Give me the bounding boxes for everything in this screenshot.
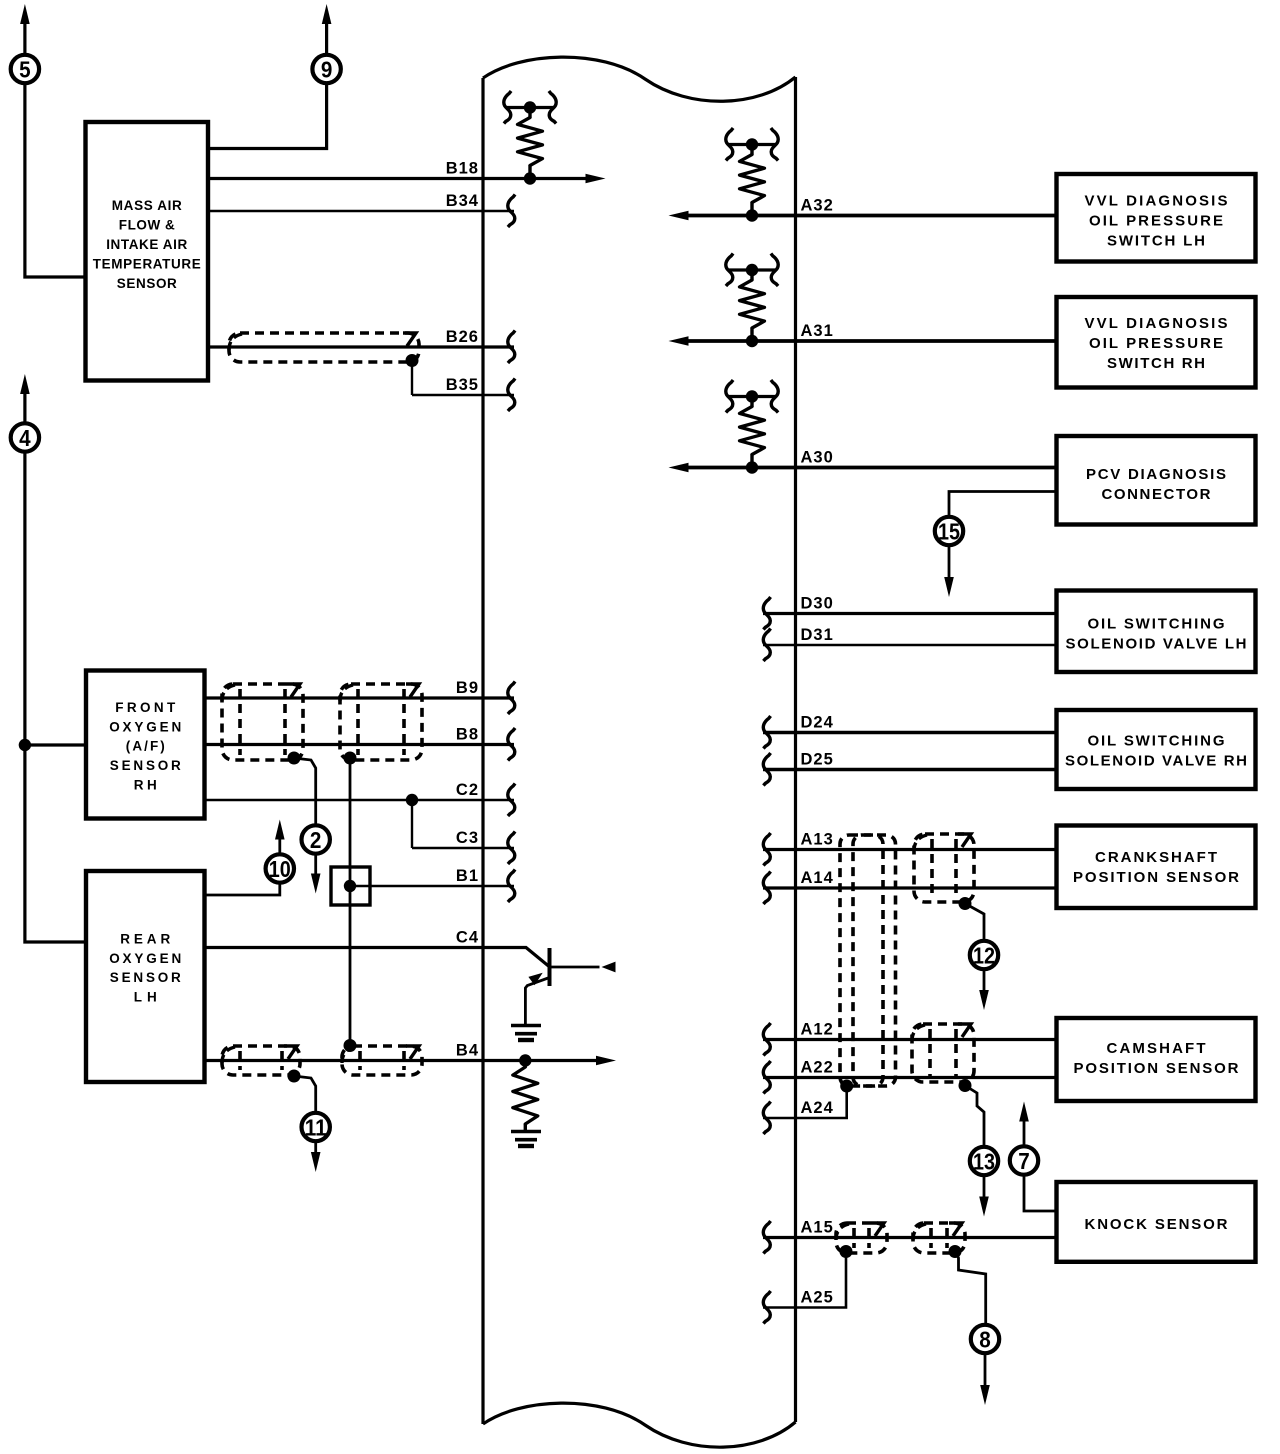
svg-text:SENSOR: SENSOR bbox=[117, 276, 177, 291]
wire shield drain to A25 bbox=[763, 1252, 846, 1308]
pin label A24 bbox=[801, 1099, 834, 1117]
transistor emitter bbox=[525, 973, 549, 1026]
arrow left A31 bbox=[669, 336, 689, 346]
ECM top torn edge bbox=[483, 57, 796, 101]
break squiggle B26 bbox=[508, 331, 515, 364]
pull-up resistor on A31 bbox=[726, 254, 778, 348]
vvl diagnosis oil pressure switch RH box bbox=[1057, 297, 1256, 388]
arrow down from node 2 bbox=[311, 855, 321, 894]
pcv diagnosis connector box bbox=[1057, 436, 1256, 525]
svg-text:D30: D30 bbox=[801, 595, 834, 613]
node 15 circle bbox=[935, 517, 963, 545]
break squiggle B34 bbox=[508, 195, 515, 227]
svg-text:A15: A15 bbox=[801, 1219, 834, 1237]
shield drain junction to B1 bbox=[344, 752, 357, 765]
svg-text:10: 10 bbox=[269, 856, 291, 882]
junction on node4 bus bbox=[19, 739, 31, 751]
node 11 circle bbox=[302, 1113, 330, 1141]
svg-text:B18: B18 bbox=[446, 160, 479, 178]
mass air flow & intake air temperature sensor box bbox=[86, 122, 209, 381]
arrow up to node 4 bbox=[20, 374, 30, 422]
wire shield drain through B1 connector bbox=[349, 758, 352, 1046]
break squiggle A22 bbox=[763, 1061, 770, 1093]
wire B9 bbox=[205, 696, 515, 699]
shield drain junction to A25 bbox=[840, 1245, 853, 1258]
break squiggle A25 bbox=[763, 1291, 770, 1323]
svg-text:A13: A13 bbox=[801, 831, 834, 849]
wire shield drain to node 11 bbox=[294, 1076, 316, 1112]
node 5 circle bbox=[11, 55, 39, 83]
ECM right boundary line bbox=[794, 77, 797, 1422]
wire tall shield drain to A24 bbox=[763, 1086, 847, 1118]
svg-text:13: 13 bbox=[973, 1149, 995, 1175]
wire C4 bbox=[205, 948, 549, 967]
pin label B26 bbox=[446, 328, 479, 346]
svg-text:FLOW &: FLOW & bbox=[119, 218, 175, 233]
pin label B4 bbox=[456, 1042, 479, 1060]
svg-text:B35: B35 bbox=[446, 376, 479, 394]
arrow down from node 15 bbox=[944, 546, 954, 597]
svg-text:5: 5 bbox=[19, 57, 31, 83]
svg-text:CAMSHAFT: CAMSHAFT bbox=[1107, 1040, 1206, 1057]
svg-text:7: 7 bbox=[1018, 1148, 1029, 1174]
arrow down from node 12 bbox=[979, 970, 989, 1010]
arrow right B4 bbox=[596, 1056, 616, 1066]
svg-text:TEMPERATURE: TEMPERATURE bbox=[93, 256, 201, 271]
wire A12 bbox=[763, 1038, 1057, 1041]
svg-text:B9: B9 bbox=[456, 679, 479, 697]
wire A14 bbox=[763, 886, 1057, 889]
pin label C3 bbox=[456, 829, 479, 847]
svg-text:POSITION SENSOR: POSITION SENSOR bbox=[1074, 1060, 1239, 1077]
break squiggle D30 bbox=[763, 597, 770, 630]
svg-text:4: 4 bbox=[19, 425, 31, 451]
wire B35 bbox=[412, 394, 514, 396]
node 7 circle bbox=[1010, 1146, 1038, 1174]
node 10 circle bbox=[266, 854, 294, 882]
svg-text:B26: B26 bbox=[446, 328, 479, 346]
oil switching solenoid valve LH box bbox=[1057, 591, 1256, 673]
wire C3 bbox=[412, 847, 514, 849]
svg-text:A32: A32 bbox=[801, 197, 834, 215]
arrow down from node 11 bbox=[311, 1142, 321, 1172]
shield 2 around A15 bbox=[913, 1223, 965, 1253]
wire shield drain to node 12 bbox=[965, 904, 984, 940]
svg-text:SWITCH LH: SWITCH LH bbox=[1107, 232, 1205, 249]
rear oxygen sensor LH box bbox=[86, 871, 205, 1082]
wire shield drain to node 2 bbox=[294, 758, 316, 824]
svg-text:OIL PRESSURE: OIL PRESSURE bbox=[1089, 335, 1223, 352]
pull-up resistor on A32 bbox=[726, 128, 778, 222]
wire rear oxygen sensor to node 10 bbox=[205, 884, 280, 895]
ECM left boundary line bbox=[481, 78, 484, 1424]
wire B18 bbox=[208, 177, 595, 180]
arrow up to node 5 bbox=[20, 4, 30, 54]
break squiggle A24 bbox=[763, 1102, 770, 1134]
svg-text:CONNECTOR: CONNECTOR bbox=[1102, 486, 1211, 503]
pin label D31 bbox=[801, 626, 834, 644]
pin label B34 bbox=[446, 192, 479, 210]
arrow down from node 13 bbox=[979, 1176, 989, 1216]
svg-text:A24: A24 bbox=[801, 1099, 834, 1117]
svg-text:D31: D31 bbox=[801, 626, 834, 644]
transistor ground bbox=[511, 1026, 541, 1041]
wire pcv connector to node 15 bbox=[949, 492, 1057, 516]
break squiggle D31 bbox=[763, 629, 770, 662]
svg-text:C4: C4 bbox=[456, 929, 479, 947]
pin label A13 bbox=[801, 831, 834, 849]
svg-text:SWITCH RH: SWITCH RH bbox=[1107, 355, 1205, 372]
connector box on B1 bbox=[331, 867, 370, 905]
node 13 circle bbox=[970, 1147, 998, 1175]
arrow up to node 7 bbox=[1019, 1102, 1029, 1146]
node 2 circle bbox=[302, 825, 330, 853]
shield drain junction to node 11 bbox=[288, 1070, 301, 1083]
svg-text:OIL PRESSURE: OIL PRESSURE bbox=[1089, 212, 1223, 229]
break squiggle A15 bbox=[763, 1221, 770, 1253]
svg-text:A31: A31 bbox=[801, 322, 834, 340]
break squiggle D24 bbox=[763, 716, 770, 749]
wire A13 bbox=[763, 848, 1057, 851]
shield around B26 bbox=[229, 333, 419, 362]
ground below B4 resistor bbox=[511, 1132, 541, 1147]
transistor collector bbox=[550, 962, 616, 973]
front oxygen (A/F) sensor RH box bbox=[86, 671, 205, 819]
svg-text:D24: D24 bbox=[801, 714, 834, 732]
wire C2 to C3 bbox=[411, 800, 413, 848]
svg-text:B8: B8 bbox=[456, 726, 479, 744]
arrow right B18 bbox=[586, 174, 606, 184]
wire B8 bbox=[205, 743, 515, 746]
svg-text:B34: B34 bbox=[446, 192, 479, 210]
shield around A12/A22 bbox=[912, 1024, 974, 1082]
node 8 circle bbox=[971, 1325, 999, 1353]
wire node4 bus bbox=[25, 453, 85, 942]
svg-text:A14: A14 bbox=[801, 869, 834, 887]
shield 1 around A15 bbox=[836, 1223, 887, 1253]
knock sensor box bbox=[1057, 1182, 1256, 1262]
break squiggle B8 bbox=[508, 728, 515, 761]
shield junction from B1 drain bbox=[344, 1039, 357, 1052]
twisted pair shield 1 (tall) bbox=[840, 835, 883, 1086]
wire node4 bus to front oxygen sensor bbox=[25, 743, 85, 746]
shield around A13/A14 bbox=[914, 834, 974, 902]
junction C2/C3 bbox=[406, 794, 418, 806]
svg-text:CRANKSHAFT: CRANKSHAFT bbox=[1095, 849, 1217, 866]
svg-text:VVL DIAGNOSIS: VVL DIAGNOSIS bbox=[1085, 315, 1228, 332]
wire node5 to MAF box bbox=[25, 84, 85, 277]
wire shield drain to node 8 bbox=[955, 1252, 986, 1324]
svg-text:D25: D25 bbox=[801, 751, 834, 769]
pin label A12 bbox=[801, 1021, 834, 1039]
node 9 circle bbox=[312, 55, 340, 83]
pull-up resistor on A30 bbox=[726, 380, 778, 474]
wire A32 bbox=[678, 214, 1057, 218]
pin label B8 bbox=[456, 726, 479, 744]
svg-text:SOLENOID VALVE RH: SOLENOID VALVE RH bbox=[1065, 753, 1247, 770]
vvl diagnosis oil pressure switch LH box bbox=[1057, 174, 1256, 262]
shield 1 around B9/B8 bbox=[222, 684, 303, 760]
shield drain junction to node 12 bbox=[959, 897, 972, 910]
arrow left A30 bbox=[669, 463, 689, 473]
break squiggle B9 bbox=[508, 682, 515, 715]
oil switching solenoid valve RH box bbox=[1057, 710, 1256, 789]
svg-text:KNOCK SENSOR: KNOCK SENSOR bbox=[1085, 1216, 1228, 1233]
svg-text:A22: A22 bbox=[801, 1059, 834, 1077]
wire node 7 to knock sensor bbox=[1024, 1176, 1057, 1211]
shield drain junction B26 bbox=[406, 354, 419, 367]
break squiggle D25 bbox=[763, 753, 770, 786]
svg-text:B4: B4 bbox=[456, 1042, 479, 1060]
wire B1 bbox=[350, 885, 514, 887]
shield 1 around B4 bbox=[222, 1046, 300, 1075]
wire D31 bbox=[763, 644, 1057, 647]
svg-text:INTAKE AIR: INTAKE AIR bbox=[106, 237, 187, 252]
wire B34 bbox=[208, 210, 514, 212]
svg-text:VVL DIAGNOSIS: VVL DIAGNOSIS bbox=[1085, 192, 1228, 209]
arrow down from node 8 bbox=[980, 1354, 990, 1405]
wire A30 bbox=[678, 466, 1057, 470]
pin label A14 bbox=[801, 869, 834, 887]
svg-text:PCV DIAGNOSIS: PCV DIAGNOSIS bbox=[1086, 466, 1226, 483]
svg-text:12: 12 bbox=[973, 943, 995, 969]
svg-text:11: 11 bbox=[305, 1115, 327, 1141]
svg-text:B1: B1 bbox=[456, 867, 479, 885]
arrow up to node 10 bbox=[275, 820, 285, 854]
break squiggle B35 bbox=[508, 379, 515, 412]
ECM bottom torn edge bbox=[483, 1403, 796, 1447]
svg-text:A12: A12 bbox=[801, 1021, 834, 1039]
wire D30 bbox=[763, 612, 1057, 615]
pull-up resistor on B18 bbox=[504, 91, 556, 185]
pin label D30 bbox=[801, 595, 834, 613]
svg-text:9: 9 bbox=[321, 57, 333, 83]
pull-down resistor on B4 bbox=[513, 1067, 538, 1130]
break squiggle C2 bbox=[508, 784, 515, 817]
break squiggle A13 bbox=[763, 833, 770, 866]
svg-text:MASS AIR: MASS AIR bbox=[112, 198, 182, 213]
pin label A15 bbox=[801, 1219, 834, 1237]
svg-text:POSITION SENSOR: POSITION SENSOR bbox=[1073, 869, 1239, 886]
wire A22 bbox=[763, 1076, 1057, 1079]
svg-text:A25: A25 bbox=[801, 1289, 834, 1307]
pin label B1 bbox=[456, 867, 479, 885]
svg-text:C3: C3 bbox=[456, 829, 479, 847]
pin label C4 bbox=[456, 929, 479, 947]
transistor base bar bbox=[548, 948, 552, 986]
wire shield B26 to B35 bbox=[411, 361, 413, 396]
wire D24 bbox=[763, 731, 1057, 734]
twisted pair shield 2 (tall) bbox=[853, 835, 896, 1086]
pin label A30 bbox=[801, 449, 834, 467]
crankshaft position sensor box bbox=[1057, 826, 1256, 909]
node 12 circle bbox=[970, 941, 998, 969]
wire B4 bbox=[205, 1059, 597, 1062]
camshaft position sensor box bbox=[1057, 1018, 1256, 1101]
svg-text:15: 15 bbox=[938, 519, 960, 545]
pin label B35 bbox=[446, 376, 479, 394]
wire D25 bbox=[763, 768, 1057, 771]
wire shield drain to node 13 bbox=[965, 1086, 984, 1146]
svg-text:C2: C2 bbox=[456, 781, 479, 799]
break squiggle A14 bbox=[763, 872, 770, 905]
pin label A31 bbox=[801, 322, 834, 340]
wire B26 bbox=[208, 345, 514, 348]
svg-text:A30: A30 bbox=[801, 449, 834, 467]
pin label A22 bbox=[801, 1059, 834, 1077]
break squiggle B1 bbox=[508, 870, 515, 903]
svg-text:8: 8 bbox=[979, 1327, 991, 1353]
arrow up to node 9 bbox=[322, 4, 332, 54]
pin label D25 bbox=[801, 751, 834, 769]
junction B1 bbox=[344, 880, 356, 892]
pin label D24 bbox=[801, 714, 834, 732]
junction B4 resistor bbox=[519, 1054, 531, 1066]
pin label C2 bbox=[456, 781, 479, 799]
shield drain junction to node 2 bbox=[288, 752, 301, 765]
wire A15 bbox=[763, 1236, 1057, 1239]
shield drain junction to node 8 bbox=[949, 1245, 962, 1258]
node 4 circle bbox=[11, 423, 39, 451]
wire MAF to node 9 bbox=[208, 84, 327, 148]
pin label B9 bbox=[456, 679, 479, 697]
shield 2 around B9/B8 bbox=[340, 684, 422, 760]
pin label A25 bbox=[801, 1289, 834, 1307]
break squiggle C3 bbox=[508, 832, 515, 865]
shield drain junction to node 13 bbox=[959, 1079, 972, 1092]
pin label A32 bbox=[801, 197, 834, 215]
break squiggle A12 bbox=[763, 1023, 770, 1055]
svg-text:2: 2 bbox=[310, 827, 322, 853]
tall shield drain junction to A24 bbox=[840, 1080, 853, 1093]
pin label B18 bbox=[446, 160, 479, 178]
wire C2 bbox=[205, 799, 515, 801]
wire A31 bbox=[678, 339, 1057, 343]
arrow left A32 bbox=[669, 211, 689, 221]
shield 2 around B4 bbox=[342, 1046, 422, 1075]
